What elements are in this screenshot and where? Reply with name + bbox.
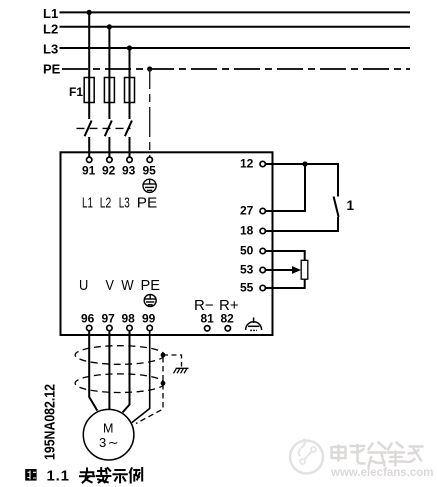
svg-text:92: 92 (102, 164, 116, 178)
glyph shi (show) (113, 470, 126, 482)
watermark text dianzifashaoyou (332, 443, 423, 468)
wire L2 rail (60, 26, 411, 28)
svg-text:L3: L3 (119, 194, 130, 211)
wire fuse2 to switch (108, 103, 110, 120)
junction PE drop (147, 66, 152, 71)
wire switch2 to box (108, 137, 110, 157)
svg-text:195NA082.12: 195NA082.12 (42, 384, 59, 460)
terminal 92 (107, 157, 112, 162)
svg-text:1: 1 (347, 198, 355, 213)
wire switch3 to box (129, 137, 131, 157)
ground clamp symbol (246, 318, 262, 331)
wire 53 wiper arrow (265, 269, 294, 271)
terminal 91 (87, 157, 92, 162)
glyph an (install) (80, 469, 94, 483)
svg-text:V: V (106, 277, 114, 294)
wire shield to motor (dashed) (136, 357, 163, 424)
svg-text:L3: L3 (43, 42, 58, 57)
wire 96 to motor (89, 331, 97, 411)
junction shield top (161, 353, 166, 358)
earth symbol (174, 368, 189, 373)
wire 99 to motor (132, 331, 150, 423)
svg-text:L1: L1 (82, 194, 93, 211)
svg-text:82: 82 (221, 312, 235, 326)
svg-text:97: 97 (102, 312, 116, 326)
fuse F1 pole2 (104, 78, 114, 103)
glyph tu (picture) (25, 469, 36, 481)
svg-text:L1: L1 (43, 6, 58, 21)
drive unit box (61, 152, 273, 335)
svg-text:91: 91 (82, 164, 96, 178)
svg-text:96: 96 (81, 312, 95, 326)
svg-text:W: W (121, 277, 134, 294)
fuse F1 pole3 (125, 78, 135, 103)
svg-text:98: 98 (122, 312, 136, 326)
wire L2 drop (108, 27, 110, 78)
svg-text:M: M (103, 422, 113, 436)
cable shield top ellipse (75, 346, 164, 365)
junction L3 drop (127, 45, 132, 50)
cable shield bottom ellipse (75, 374, 164, 393)
caption figure 1.1 (25, 468, 142, 485)
svg-text:PE: PE (137, 194, 158, 211)
junction L1 drop (87, 10, 92, 15)
svg-text:3∼: 3∼ (99, 435, 120, 450)
svg-text:L2: L2 (100, 194, 112, 211)
svg-text:1.1: 1.1 (47, 468, 70, 485)
wire shield to earth (dashed) (163, 355, 182, 367)
watermark logo (290, 439, 323, 474)
svg-text:93: 93 (122, 164, 136, 178)
svg-text:27: 27 (240, 204, 254, 218)
wire fuse1 to switch (88, 103, 90, 120)
svg-text:PE: PE (141, 277, 161, 294)
wire 97 to motor (108, 331, 110, 410)
svg-text:50: 50 (240, 244, 254, 258)
wire L1 rail (60, 11, 411, 13)
wire switch to 18 (265, 217, 338, 231)
glyph zhuang (mount) (97, 468, 111, 483)
wire 50 to pot top (265, 251, 304, 261)
terminal 93 (127, 157, 132, 162)
wire 55 to pot bottom (265, 280, 304, 289)
svg-text:53: 53 (240, 263, 254, 277)
svg-text:99: 99 (142, 312, 156, 326)
wire L3 drop (129, 48, 131, 78)
svg-text:PE: PE (43, 62, 61, 77)
svg-text:95: 95 (143, 164, 157, 178)
PE earth symbol bottom (144, 295, 156, 307)
junction 12/27 (302, 161, 307, 166)
PE earth symbol top (143, 179, 156, 192)
wire switch1 to box (88, 137, 90, 157)
svg-text:U: U (79, 277, 88, 294)
junction L2 drop (107, 24, 112, 29)
svg-text:12: 12 (240, 157, 254, 171)
switch 1 blade (334, 197, 339, 218)
switch blade pole1 (85, 121, 92, 137)
wire PE rail (dash-dot) (62, 68, 410, 70)
switch blade pole3 (125, 121, 132, 137)
switch blade pole2 (105, 121, 112, 137)
svg-text:81: 81 (201, 312, 215, 326)
svg-text:L2: L2 (43, 22, 58, 37)
wire 12 to switch (265, 164, 338, 197)
fuse F1 pole1 (84, 78, 94, 103)
junction shield bottom (161, 381, 166, 386)
potentiometer R1 (301, 260, 308, 279)
wire 27 up to junction (265, 164, 305, 211)
svg-text:www.elecfans.com: www.elecfans.com (330, 467, 433, 479)
svg-text:18: 18 (240, 224, 254, 238)
svg-text:F1: F1 (69, 85, 83, 99)
wire L3 rail (60, 47, 411, 49)
wire PE drop (dash-dot) (149, 69, 151, 157)
wire fuse3 to switch (129, 103, 131, 120)
wire L1 drop (88, 12, 90, 77)
svg-text:55: 55 (240, 281, 254, 295)
glyph li (example) (130, 468, 142, 483)
switch linkage dashed (77, 127, 131, 129)
motor M1 (83, 409, 134, 460)
terminal 95 (147, 157, 152, 162)
wire 98 to motor (123, 331, 130, 413)
